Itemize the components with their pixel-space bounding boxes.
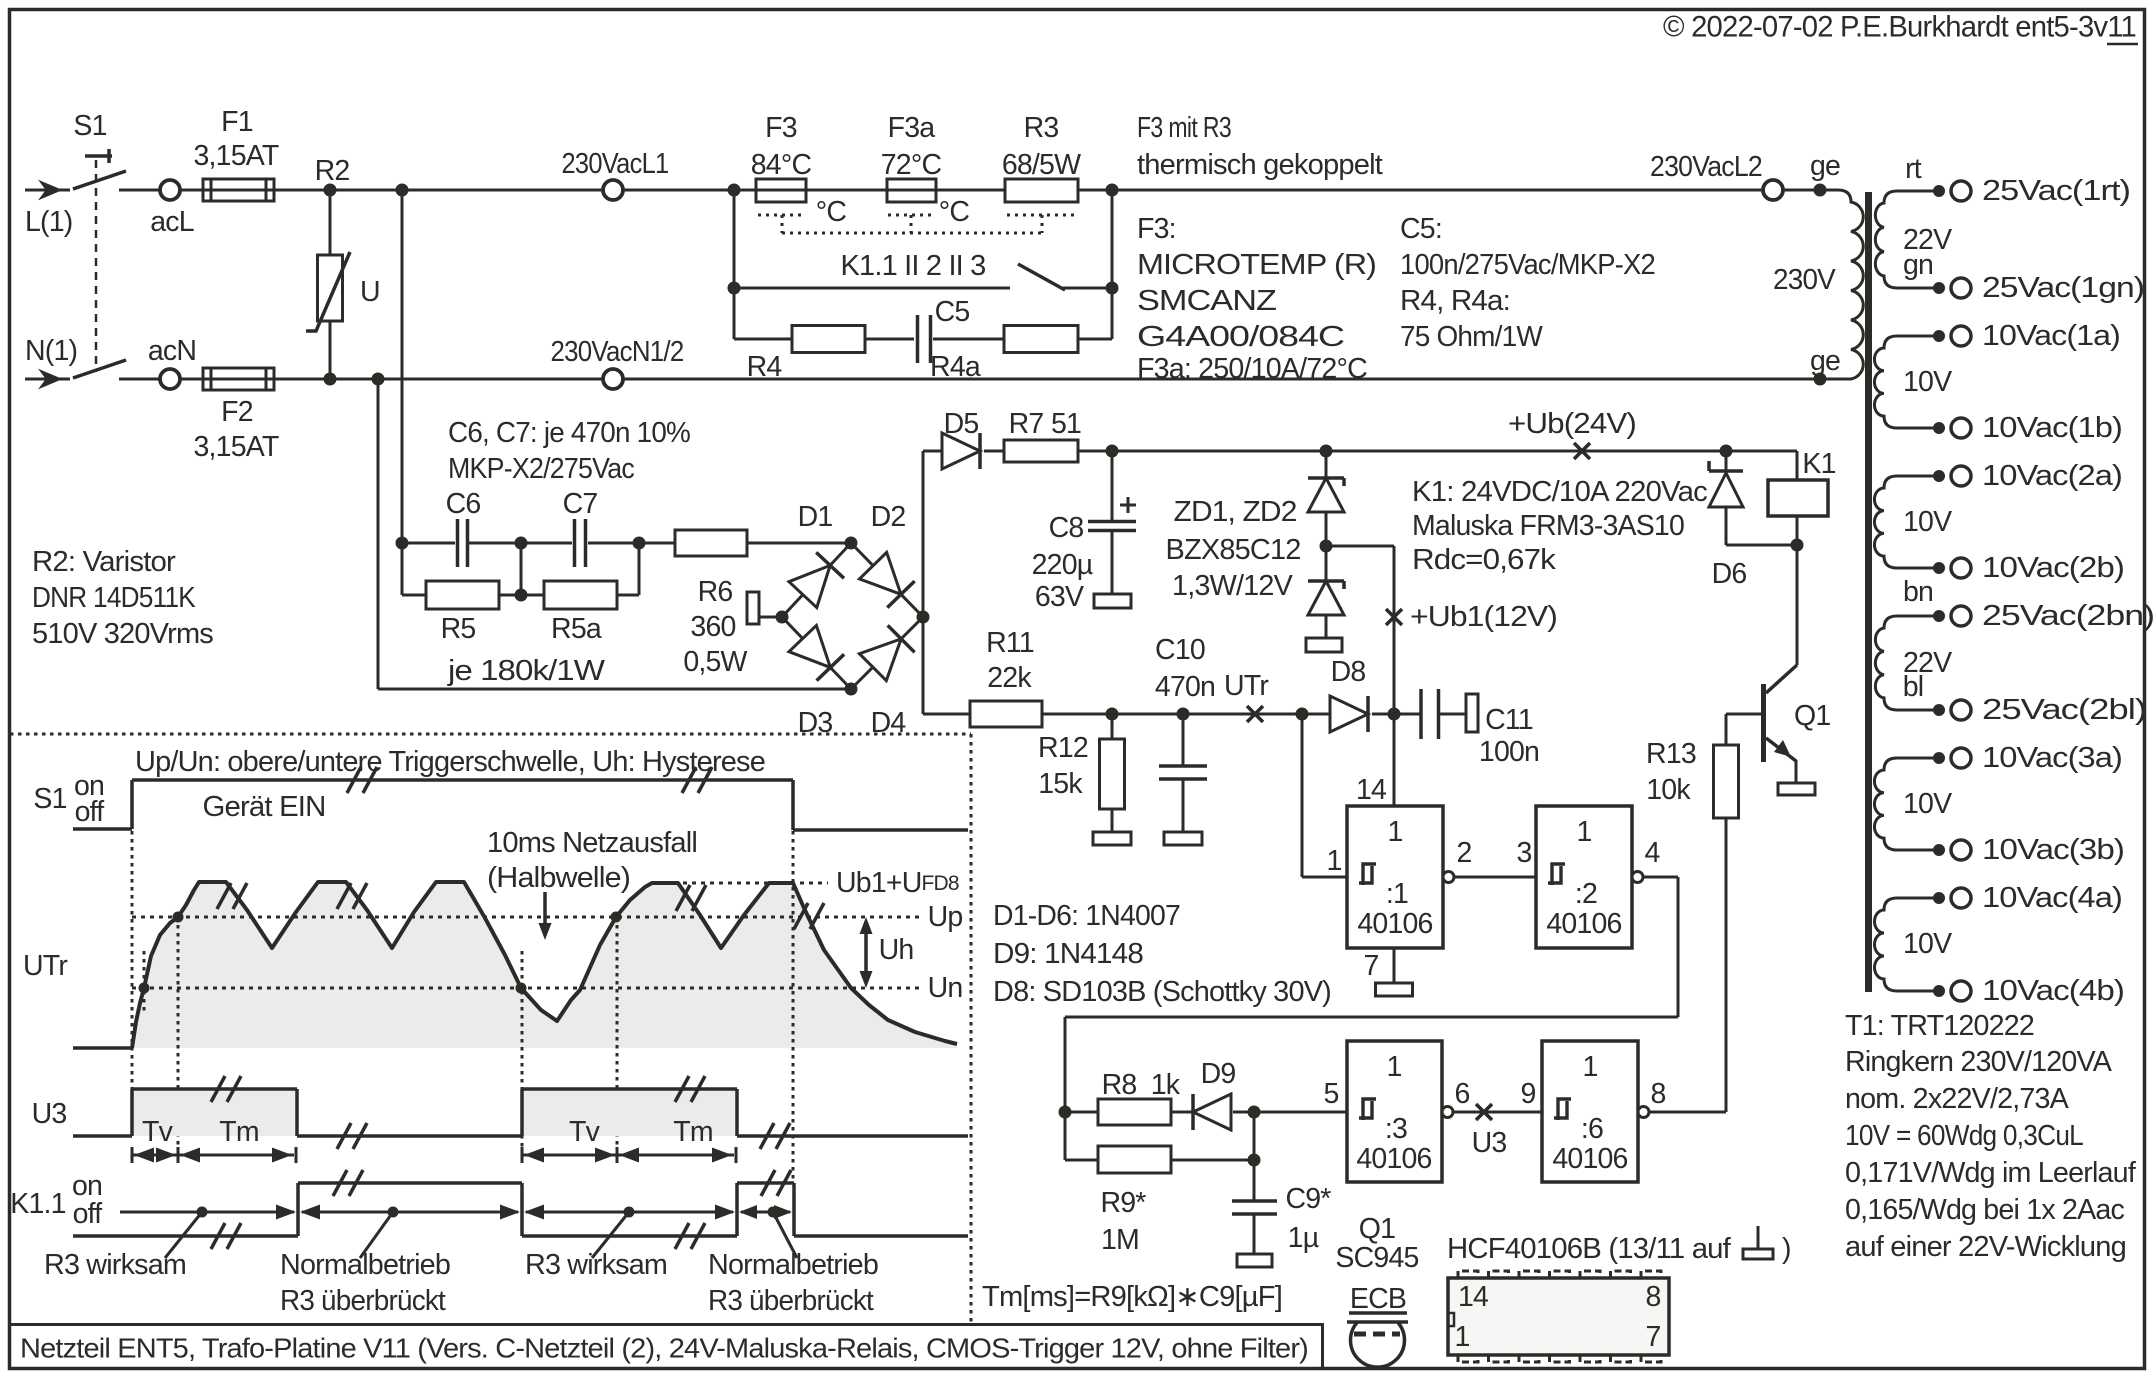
- svg-text:T1: TRT120222: T1: TRT120222: [1845, 1010, 2034, 1042]
- svg-text:1,3W/12V: 1,3W/12V: [1172, 570, 1293, 602]
- label rt: [1905, 153, 1922, 185]
- svg-text:ge: ge: [1810, 150, 1840, 182]
- svg-text:25Vac(2bl): 25Vac(2bl): [1982, 694, 2146, 726]
- svg-text:100n/275Vac/MKP-X2: 100n/275Vac/MKP-X2: [1400, 249, 1655, 281]
- ground tab C10: [1164, 832, 1202, 845]
- svg-text:bl: bl: [1903, 671, 1924, 703]
- svg-text:15k: 15k: [1038, 768, 1083, 800]
- svg-text:R4a: R4a: [930, 351, 981, 383]
- resistor R4: [747, 326, 865, 384]
- ground tab ZD2: [1306, 638, 1342, 652]
- label bl: [1903, 671, 1924, 703]
- svg-text:10V: 10V: [1903, 506, 1952, 538]
- svg-text:C9*: C9*: [1285, 1183, 1331, 1215]
- terminal 10Vac(2a): [1933, 460, 2122, 492]
- ground tab C9: [1237, 1254, 1272, 1267]
- svg-text:acN: acN: [148, 335, 196, 367]
- node K1-bottom: [1791, 516, 1804, 552]
- svg-text:Normalbetrieb: Normalbetrieb: [708, 1249, 878, 1281]
- svg-text:SMCANZ: SMCANZ: [1137, 285, 1276, 317]
- svg-text:F3:: F3:: [1137, 213, 1176, 245]
- trace U3 label: [32, 1098, 67, 1130]
- svg-text:auf einer 22V-Wicklung: auf einer 22V-Wicklung: [1845, 1231, 2126, 1263]
- svg-text:Un: Un: [928, 972, 963, 1004]
- svg-text:D9: D9: [1201, 1058, 1236, 1090]
- capacitor C10: [1155, 634, 1215, 832]
- svg-text:D2: D2: [871, 501, 906, 533]
- ground tab R12: [1093, 832, 1131, 845]
- svg-text:nom. 2x22V/2,73A: nom. 2x22V/2,73A: [1845, 1083, 2069, 1115]
- op-amp U1 gate :2: [1536, 806, 1643, 948]
- svg-text:510V 320Vrms: 510V 320Vrms: [32, 618, 214, 650]
- svg-text:3,15AT: 3,15AT: [194, 431, 279, 463]
- svg-text:1: 1: [1326, 845, 1341, 877]
- node C6-C7: [515, 537, 528, 550]
- transistor Q1: [1764, 545, 1831, 783]
- svg-text:(Halbwelle): (Halbwelle): [487, 862, 630, 894]
- terminal 25Vac(1gn): [1933, 272, 2144, 304]
- input terminal N(1): [25, 335, 77, 387]
- svg-text:gn: gn: [1903, 249, 1933, 281]
- bridge minus tab: [747, 592, 782, 624]
- note ZD: [1166, 496, 1301, 602]
- svg-text:U3: U3: [1472, 1127, 1507, 1159]
- leader R3 wirksam 1: [44, 1212, 202, 1281]
- svg-text:U3: U3: [32, 1098, 67, 1130]
- connector 230VacL2: [1650, 151, 1783, 200]
- svg-text:R5a: R5a: [551, 613, 602, 645]
- svg-text:+Ub1(12V): +Ub1(12V): [1410, 601, 1557, 633]
- svg-text:Up: Up: [928, 901, 963, 933]
- dot Un crossing 2: [516, 983, 527, 994]
- terminal 10Vac(1b): [1933, 412, 2122, 444]
- svg-text:K1.1 II 2 II 3: K1.1 II 2 II 3: [841, 250, 986, 282]
- note F3 type: [1137, 213, 1376, 385]
- svg-text:F3a: 250/10A/72°C: F3a: 250/10A/72°C: [1137, 353, 1367, 385]
- svg-text:10ms Netzausfall: 10ms Netzausfall: [487, 827, 697, 859]
- resistor R13: [1646, 714, 1762, 1112]
- wire feedback: [1065, 1017, 1678, 1160]
- leader Normalbetrieb 2: [708, 1212, 878, 1317]
- wire bridge-plus column: [922, 451, 925, 714]
- resistor R9: [1098, 1146, 1171, 1256]
- svg-text:R8: R8: [1102, 1069, 1137, 1101]
- dot Up crossing 2: [611, 912, 622, 923]
- svg-text:R3 überbrückt: R3 überbrückt: [708, 1285, 874, 1317]
- svg-text:F2: F2: [221, 396, 253, 428]
- diode D2: [859, 501, 914, 608]
- fuse F2: [194, 368, 279, 463]
- svg-text:R9*: R9*: [1100, 1187, 1146, 1219]
- svg-text:40106: 40106: [1552, 1143, 1627, 1175]
- svg-text:100n: 100n: [1479, 736, 1539, 768]
- svg-text:SC945: SC945: [1335, 1242, 1418, 1274]
- resistor R12: [1038, 714, 1124, 832]
- svg-text:R4, R4a:: R4, R4a:: [1400, 285, 1510, 317]
- svg-text:K1.1: K1.1: [10, 1188, 65, 1220]
- transformer T1 secondary winding 2 (10V 1a-1b): [1874, 336, 1952, 428]
- svg-text:N(1): N(1): [25, 335, 77, 367]
- svg-text:C8: C8: [1049, 512, 1084, 544]
- terminal 10Vac(4b): [1933, 975, 2124, 1007]
- trace UTr shaded area: [132, 882, 957, 1048]
- diode D6: [1709, 451, 1797, 590]
- svg-text:10V: 10V: [1903, 788, 1952, 820]
- node ZD1-top: [1320, 445, 1333, 458]
- svg-text:360: 360: [690, 611, 735, 643]
- svg-text:je 180k/1W: je 180k/1W: [447, 655, 605, 687]
- svg-text:F1: F1: [221, 106, 253, 138]
- trace UTr curve: [132, 882, 957, 1048]
- svg-text:R7: R7: [1009, 408, 1044, 440]
- transformer T1 secondary winding 3 (10V 2a-2b): [1874, 476, 1952, 568]
- svg-text:G4A00/084C: G4A00/084C: [1137, 321, 1344, 353]
- svg-text:1µ: 1µ: [1288, 1222, 1319, 1254]
- wire acL column: [401, 190, 404, 543]
- dim K1.1 seg4: [739, 1205, 792, 1219]
- svg-text:D1: D1: [798, 501, 833, 533]
- svg-text:470n: 470n: [1155, 671, 1215, 703]
- wire K1.1 row left: [733, 190, 736, 288]
- svg-text:R3 wirksam: R3 wirksam: [525, 1249, 667, 1281]
- svg-text:10Vac(4b): 10Vac(4b): [1982, 975, 2124, 1007]
- thermal fuse F3: [751, 112, 812, 202]
- hysteresis arrow Uh: [860, 917, 914, 988]
- dim K1.1 seg3: [524, 1205, 735, 1220]
- capacitor C5: [918, 296, 970, 363]
- svg-text:1: 1: [1582, 1051, 1597, 1083]
- trace UTr baseline: [73, 1046, 132, 1050]
- wire N loop bottom: [378, 379, 851, 689]
- note F3 mit R3: [1137, 112, 1383, 181]
- wire K1.1 row right: [1111, 190, 1114, 288]
- node R12-top: [1106, 708, 1119, 721]
- svg-text:40106: 40106: [1356, 1143, 1431, 1175]
- svg-text:K1: K1: [1802, 448, 1835, 480]
- svg-text:40106: 40106: [1546, 908, 1621, 940]
- svg-text:14: 14: [1458, 1281, 1489, 1313]
- svg-text:Normalbetrieb: Normalbetrieb: [280, 1249, 450, 1281]
- svg-text:HCF40106B (13/11 auf: HCF40106B (13/11 auf: [1447, 1233, 1731, 1265]
- note R5 value: [447, 655, 605, 687]
- svg-text:Tm: Tm: [219, 1116, 259, 1148]
- thermal coupling dotted: [758, 196, 1077, 233]
- diode D8: [1330, 656, 1368, 732]
- resistor R3: [1002, 112, 1081, 202]
- fuse F1: [194, 106, 279, 201]
- wire R9 row: [1065, 1112, 1254, 1160]
- node N-bridge: [372, 373, 385, 386]
- node R8-left: [1059, 1106, 1072, 1119]
- svg-text:R4: R4: [747, 351, 783, 383]
- wire pin1: [1302, 714, 1347, 877]
- svg-text:MICROTEMP (R): MICROTEMP (R): [1137, 249, 1376, 281]
- wire pin8 to R13: [1649, 1111, 1726, 1114]
- note T1 data: [1845, 1010, 2136, 1263]
- resistor R11: [970, 627, 1042, 727]
- op-amp U1 gate :3: [1323, 1041, 1469, 1182]
- svg-text:84°C: 84°C: [751, 149, 812, 181]
- capacitor C6: [446, 488, 481, 567]
- svg-text:8: 8: [1645, 1281, 1660, 1313]
- trace U3 fill: [132, 1089, 737, 1136]
- dim Tv1: [132, 1116, 178, 1163]
- resistor R6: [675, 530, 748, 678]
- svg-text:MKP-X2/275Vac: MKP-X2/275Vac: [448, 453, 635, 485]
- wire C6 row: [402, 542, 851, 545]
- svg-text:Gerät EIN: Gerät EIN: [203, 791, 326, 823]
- transformer T1 secondary winding 5 (10V 3a-3b): [1874, 758, 1952, 850]
- svg-text:D9: 1N4148: D9: 1N4148: [993, 938, 1143, 970]
- svg-text:25Vac(2bn): 25Vac(2bn): [1982, 600, 2154, 632]
- wire UTr row: [923, 713, 1466, 716]
- note C6 C7: [448, 417, 690, 485]
- node R5-mid: [515, 589, 528, 602]
- svg-text:D8: D8: [1331, 656, 1366, 688]
- svg-text:10Vac(1a): 10Vac(1a): [1982, 320, 2120, 352]
- wire R4 row: [734, 288, 1112, 339]
- note diodes: [993, 900, 1331, 1008]
- svg-text:L(1): L(1): [25, 206, 72, 238]
- wire gate2 out: [1643, 837, 1678, 1017]
- node C9-top: [1248, 1154, 1261, 1167]
- svg-text:C7: C7: [563, 488, 598, 520]
- svg-text::3: :3: [1385, 1113, 1407, 1145]
- svg-text:75 Ohm/1W: 75 Ohm/1W: [1400, 321, 1543, 353]
- dot Un crossing 1: [139, 983, 150, 994]
- wire pin14: [1356, 714, 1394, 806]
- svg-text:thermisch gekoppelt: thermisch gekoppelt: [1137, 149, 1383, 181]
- transformer T1 secondary winding 1 (22V rt-gn): [1875, 191, 1952, 288]
- terminal 10Vac(3a): [1933, 742, 2122, 774]
- svg-text:230VacL1: 230VacL1: [562, 148, 669, 180]
- node primary bottom: [1810, 345, 1840, 386]
- dot Up crossing 1: [173, 912, 184, 923]
- label gn: [1903, 249, 1933, 281]
- ground pin7: [1363, 948, 1412, 996]
- svg-text:7: 7: [1645, 1321, 1660, 1353]
- dim Tm1: [178, 1116, 296, 1163]
- svg-text:1: 1: [1387, 816, 1402, 848]
- svg-text::6: :6: [1581, 1113, 1603, 1145]
- svg-text:+Ub(24V): +Ub(24V): [1508, 408, 1636, 440]
- diode D4: [859, 625, 914, 739]
- svg-text:D5: D5: [944, 408, 979, 440]
- tab C11: [1466, 694, 1478, 732]
- timing box dotted border: [10, 734, 971, 1322]
- dim K1.1 seg1: [120, 1205, 296, 1220]
- svg-text:10k: 10k: [1646, 774, 1691, 806]
- svg-text:14: 14: [1356, 774, 1387, 806]
- svg-text:acL: acL: [150, 206, 194, 238]
- svg-text:R3 überbrückt: R3 überbrückt: [280, 1285, 446, 1317]
- svg-text:10Vac(2b): 10Vac(2b): [1982, 552, 2124, 584]
- IC HCF40106B package: [1448, 1271, 1669, 1362]
- switch S1: [73, 110, 160, 379]
- svg-text:C11: C11: [1485, 704, 1533, 736]
- svg-text:UTr: UTr: [1224, 670, 1269, 702]
- svg-text:K1: 24VDC/10A 220Vac: K1: 24VDC/10A 220Vac: [1412, 476, 1708, 508]
- svg-text:7: 7: [1363, 950, 1378, 982]
- svg-text:Q1: Q1: [1359, 1213, 1395, 1245]
- dim Tv2: [522, 1116, 617, 1163]
- svg-text:3: 3: [1516, 837, 1531, 869]
- svg-text:R5: R5: [441, 613, 476, 645]
- node F3-right: [1106, 184, 1119, 197]
- trace UTr label: [23, 950, 68, 982]
- resistor R5a: [544, 581, 617, 645]
- svg-text:10Vac(3a): 10Vac(3a): [1982, 742, 2122, 774]
- diode D9: [1193, 1058, 1235, 1130]
- threshold Ub1+UFD8 dotted: [683, 867, 959, 899]
- node L-R2: [324, 184, 337, 197]
- resistor R8: [1098, 1069, 1181, 1125]
- svg-text:Uh: Uh: [879, 934, 914, 966]
- svg-text:0,5W: 0,5W: [683, 646, 747, 678]
- svg-text:22k: 22k: [987, 662, 1032, 694]
- connector 230VacN1/2: [551, 336, 684, 389]
- terminal 25Vac(1rt): [1933, 175, 2130, 207]
- svg-text:°C: °C: [816, 196, 847, 228]
- svg-text:S1: S1: [73, 110, 106, 142]
- svg-text:63V: 63V: [1035, 581, 1084, 613]
- svg-text:10Vac(4a): 10Vac(4a): [1982, 882, 2122, 914]
- svg-text:): ): [1782, 1233, 1791, 1265]
- svg-text:230VacN1/2: 230VacN1/2: [551, 336, 684, 368]
- svg-text:F3a: F3a: [888, 112, 936, 144]
- svg-text:220µ: 220µ: [1032, 549, 1093, 581]
- varistor R2: [306, 155, 380, 379]
- svg-text:R11: R11: [986, 627, 1034, 659]
- svg-text:F3: F3: [765, 112, 797, 144]
- leader R3 wirksam 2: [525, 1212, 667, 1281]
- dim Tm2: [617, 1116, 736, 1163]
- transformer T1 core: [1865, 192, 1872, 992]
- diode D1: [789, 501, 844, 608]
- net UTr: [1224, 670, 1269, 722]
- svg-text:R13: R13: [1646, 738, 1696, 770]
- node primary top: [1810, 150, 1840, 197]
- svg-text:Ringkern 230V/120VA: Ringkern 230V/120VA: [1845, 1046, 2112, 1078]
- relay coil K1: [1768, 448, 1836, 516]
- bridge node bottom: [845, 683, 858, 696]
- varistor R2 info: [32, 546, 214, 650]
- svg-text:D8: SD103B (Schottky 30V): D8: SD103B (Schottky 30V): [993, 976, 1331, 1008]
- node N-R2: [324, 373, 337, 386]
- thermal fuse F3a: [881, 112, 942, 202]
- label bn: [1903, 576, 1933, 608]
- svg-text:ZD1, ZD2: ZD1, ZD2: [1174, 496, 1297, 528]
- svg-text:Maluska FRM3-3AS10: Maluska FRM3-3AS10: [1412, 510, 1684, 542]
- svg-text:C5:: C5:: [1400, 213, 1442, 245]
- trace K1.1 labels: [10, 1170, 102, 1230]
- svg-text:9: 9: [1520, 1078, 1535, 1110]
- svg-text:5: 5: [1323, 1078, 1338, 1110]
- svg-text:Tm: Tm: [673, 1116, 713, 1148]
- dim K1.1 seg2: [300, 1205, 520, 1220]
- resistor R7: [1004, 408, 1081, 462]
- svg-text:BZX85C12: BZX85C12: [1166, 534, 1301, 566]
- svg-text:10Vac(1b): 10Vac(1b): [1982, 412, 2122, 444]
- svg-text:1: 1: [1454, 1321, 1469, 1353]
- threshold Un dotted: [132, 972, 962, 1004]
- trace U3: [73, 1076, 968, 1149]
- relay contact K1.1: [734, 250, 1112, 290]
- node K1.1-right: [1106, 282, 1119, 295]
- resistor R4a: [930, 326, 1078, 384]
- node D8-cathode: [1388, 708, 1401, 721]
- ground tab C8: [1094, 594, 1131, 608]
- threshold Up dotted: [132, 901, 962, 933]
- svg-text:© 2022-07-02 P.E.Burkhardt ent: © 2022-07-02 P.E.Burkhardt ent5-3v11: [1663, 11, 2136, 44]
- op-amp U1 gate :6: [1542, 1041, 1666, 1182]
- svg-text:1: 1: [1576, 816, 1591, 848]
- terminal 25Vac(2bl): [1933, 694, 2146, 726]
- node C10-top: [1177, 708, 1190, 721]
- svg-text:1k: 1k: [1151, 1069, 1181, 1101]
- transformer T1 secondary winding 4 (22V bn-bl): [1875, 616, 1952, 710]
- svg-text:S1: S1: [33, 783, 66, 815]
- connector acL: [150, 180, 194, 238]
- svg-text:bn: bn: [1903, 576, 1933, 608]
- wire R5 row: [402, 543, 639, 595]
- svg-text:R3: R3: [1024, 112, 1059, 144]
- svg-text:10V = 60Wdg 0,3CuL: 10V = 60Wdg 0,3CuL: [1845, 1120, 2083, 1152]
- svg-text:10Vac(2a): 10Vac(2a): [1982, 460, 2122, 492]
- node D6-top: [1720, 445, 1733, 458]
- svg-text:0,165/Wdg bei 1x 2Aac: 0,165/Wdg bei 1x 2Aac: [1845, 1194, 2125, 1226]
- bridge node top: [845, 537, 858, 550]
- svg-text:68/5W: 68/5W: [1002, 149, 1081, 181]
- diode D5: [942, 408, 980, 469]
- note Netzausfall: [487, 827, 697, 940]
- node C7-right: [633, 537, 646, 550]
- svg-text:25Vac(1gn): 25Vac(1gn): [1982, 272, 2144, 304]
- bridge frame: [782, 543, 923, 689]
- bridge node right: [917, 611, 930, 624]
- trace K1.1: [73, 1170, 968, 1249]
- svg-text:Tv: Tv: [142, 1116, 174, 1148]
- IC HCF40106B label: [1447, 1226, 1791, 1265]
- svg-text:U: U: [360, 276, 380, 308]
- node ZD-mid: [1320, 540, 1333, 553]
- svg-text::1: :1: [1386, 878, 1408, 910]
- terminal 10Vac(2b): [1933, 552, 2124, 584]
- svg-text:D6: D6: [1712, 558, 1747, 590]
- svg-text:Tm[ms]=R9[kΩ]∗C9[µF]: Tm[ms]=R9[kΩ]∗C9[µF]: [982, 1281, 1282, 1313]
- capacitor C8: [1032, 451, 1136, 613]
- svg-text:2: 2: [1456, 837, 1471, 869]
- svg-text:Up/Un: obere/untere Triggersch: Up/Un: obere/untere Triggerschwelle, Uh:…: [135, 746, 765, 778]
- svg-text:R3 wirksam: R3 wirksam: [44, 1249, 186, 1281]
- svg-text:C6: C6: [446, 488, 481, 520]
- svg-text:72°C: 72°C: [881, 149, 942, 181]
- guide dotted verticals: [132, 783, 793, 1183]
- wire N line: [180, 378, 1822, 381]
- svg-text:UTr: UTr: [23, 950, 68, 982]
- svg-text:10Vac(3b): 10Vac(3b): [1982, 834, 2124, 866]
- terminal 25Vac(2bn): [1933, 600, 2154, 632]
- terminal 10Vac(4a): [1933, 882, 2122, 914]
- wire L line: [180, 189, 1822, 192]
- node K1.1-left: [728, 282, 741, 295]
- connector acN: [148, 335, 196, 389]
- svg-text:10V: 10V: [1903, 366, 1952, 398]
- net +Ub(24V): [1508, 408, 1636, 459]
- svg-text:Netzteil ENT5, Trafo-Platine V: Netzteil ENT5, Trafo-Platine V11 (Vers. …: [20, 1333, 1308, 1364]
- node C8-top: [1106, 445, 1119, 458]
- trace S1 labels: [33, 770, 104, 828]
